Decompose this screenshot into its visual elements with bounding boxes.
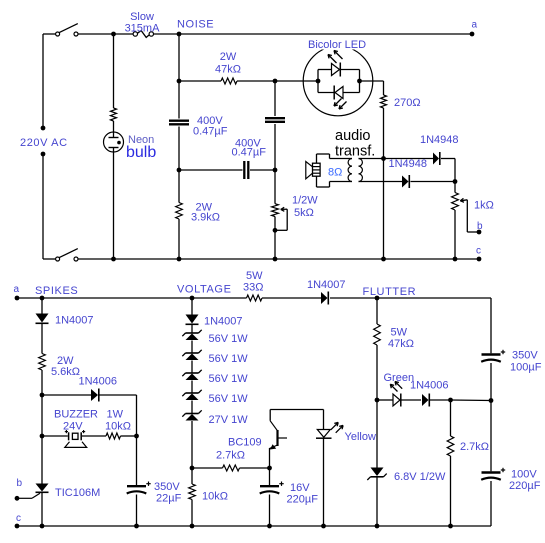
zener 6.8V 1/2W xyxy=(367,468,386,481)
LED yellow emission arrows xyxy=(331,422,343,432)
svg-text:8Ω: 8Ω xyxy=(328,167,342,179)
svg-text:1kΩ: 1kΩ xyxy=(474,200,494,212)
terminal c (bottom section) xyxy=(15,513,21,528)
svg-text:1N4948: 1N4948 xyxy=(420,134,459,146)
capacitor C3 400V 0.47uF (series) xyxy=(179,161,275,179)
wire left rail lower xyxy=(42,154,44,259)
wire voltage column x=192 xyxy=(190,296,195,529)
wire bottom rail xyxy=(17,525,491,527)
svg-text:0.47µF: 0.47µF xyxy=(232,147,267,159)
svg-text:1/2W: 1/2W xyxy=(292,195,318,207)
svg-text:TIC106M: TIC106M xyxy=(55,487,100,499)
svg-text:47kΩ: 47kΩ xyxy=(215,64,241,76)
label C3 xyxy=(232,138,267,159)
diode 1N4006 (buzzer) xyxy=(91,389,99,402)
label 6.8V xyxy=(394,471,446,483)
capacitor 100V 220uF xyxy=(481,468,505,480)
svg-text:47kΩ: 47kΩ xyxy=(388,338,414,350)
diode 1N4948 (lower) xyxy=(402,175,409,188)
wire 270ohm column x=383.5 xyxy=(381,81,386,261)
terminal 220V AC lower xyxy=(41,152,46,157)
thyristor TIC106M xyxy=(17,484,49,499)
switch S2 (bottom, open) xyxy=(56,249,78,261)
potentiometer 5k 1/2W xyxy=(272,204,288,231)
svg-text:a: a xyxy=(14,284,20,295)
label SPIKES xyxy=(35,285,78,297)
svg-text:1N4006: 1N4006 xyxy=(79,376,118,388)
svg-text:10kΩ: 10kΩ xyxy=(105,421,131,433)
label 1N4006 buzzer xyxy=(79,376,118,388)
resistor 3.9k 2W xyxy=(176,203,183,220)
diode 1N4007 (rail) xyxy=(321,292,328,305)
resistor 33ohm 5W xyxy=(247,295,263,301)
wire collector to yellow LED xyxy=(270,410,323,430)
resistor 2.7k (base row) xyxy=(192,465,270,471)
label 56V #2 xyxy=(209,353,249,365)
svg-text:c: c xyxy=(476,246,481,257)
label 1N4948 upper xyxy=(420,134,459,146)
svg-text:VOLTAGE: VOLTAGE xyxy=(177,284,232,296)
wire spikes top rail xyxy=(17,297,491,299)
switch S1 (top, open) xyxy=(56,24,78,36)
label 2.7k base xyxy=(216,450,245,462)
resistor 270ohm xyxy=(381,95,387,108)
zener 56V 1W #2 xyxy=(182,350,201,360)
svg-text:56V 1W: 56V 1W xyxy=(209,353,249,365)
capacitor C2 400V 0.47uF xyxy=(265,118,285,122)
svg-text:1N4948: 1N4948 xyxy=(389,158,428,170)
wire x=275 column xyxy=(273,79,278,262)
bicolor LED diode (bottom, left-pointing) xyxy=(334,86,343,100)
label 47k 2W xyxy=(215,51,241,76)
label 5k pot xyxy=(292,195,318,220)
label Yellow xyxy=(345,431,376,443)
label BUZZER 24V xyxy=(54,409,98,433)
wire buzzer top row xyxy=(42,395,139,438)
wire emitter column xyxy=(267,448,272,528)
transformer secondary winding xyxy=(359,159,363,182)
label 1N4007 voltage xyxy=(204,316,243,328)
bicolor LED diode (top, right-pointing) xyxy=(332,63,341,77)
capacitor 16V 220uF xyxy=(260,482,284,494)
svg-text:33Ω: 33Ω xyxy=(243,282,263,294)
terminal b (top section) xyxy=(477,221,483,234)
terminal a (top) xyxy=(470,20,478,37)
svg-text:1N4007: 1N4007 xyxy=(307,279,346,291)
svg-text:bulb: bulb xyxy=(126,144,156,161)
terminal 220V AC upper xyxy=(41,126,46,131)
svg-text:27V 1W: 27V 1W xyxy=(209,414,249,426)
terminal b (bottom section) xyxy=(15,478,23,501)
zener 56V 1W #3 xyxy=(182,370,201,380)
zener 56V 1W #4 xyxy=(182,390,201,400)
label 33ohm xyxy=(243,270,263,294)
label 100V 220uF xyxy=(509,469,541,493)
svg-text:FLUTTER: FLUTTER xyxy=(363,286,417,298)
wire yellow LED to rail xyxy=(321,438,326,528)
wire into LED xyxy=(275,79,384,84)
zener 27V 1W xyxy=(182,410,201,420)
wire secondary bottom xyxy=(362,179,457,184)
LED green emission arrows xyxy=(390,382,402,392)
capacitor C1 400V 0.47uF xyxy=(169,121,189,125)
wire bottom rail (return line) xyxy=(43,258,479,260)
label 56V #4 xyxy=(209,393,249,405)
svg-text:6.8V 1/2W: 6.8V 1/2W xyxy=(394,471,446,483)
svg-text:1N4006: 1N4006 xyxy=(410,380,449,392)
label 1N4948 lower xyxy=(389,158,428,170)
svg-text:b: b xyxy=(17,478,23,489)
label 1N4006 flutter xyxy=(410,380,449,392)
svg-text:5W: 5W xyxy=(391,327,408,339)
svg-text:220µF: 220µF xyxy=(287,494,319,506)
svg-text:c: c xyxy=(16,513,21,524)
svg-text:56V 1W: 56V 1W xyxy=(209,333,249,345)
capacitor 350V 100uF xyxy=(481,350,505,362)
label 10k voltage xyxy=(202,491,228,503)
svg-text:BUZZER: BUZZER xyxy=(54,409,98,421)
bicolor LED emission arrows (down-left) xyxy=(334,99,347,110)
zener 56V 1W #1 xyxy=(182,330,201,340)
svg-text:220µF: 220µF xyxy=(509,480,541,492)
transistor BC109 xyxy=(270,421,287,450)
label VOLTAGE xyxy=(177,284,232,296)
resistor 47k 5W xyxy=(374,324,381,345)
bicolor LED circle xyxy=(303,46,373,116)
svg-text:270Ω: 270Ω xyxy=(394,97,421,109)
svg-text:NOISE: NOISE xyxy=(177,19,214,31)
svg-text:10kΩ: 10kΩ xyxy=(202,491,228,503)
wire neon branch xyxy=(111,32,116,262)
svg-text:2.7kΩ: 2.7kΩ xyxy=(216,450,245,462)
svg-text:315mA: 315mA xyxy=(125,23,161,35)
label 1N4007 spikes xyxy=(55,315,94,327)
svg-text:16V: 16V xyxy=(290,482,310,494)
wire node to right column xyxy=(451,399,492,402)
fuse F1 slow-blow 315mA xyxy=(133,31,153,38)
label 1N4007 rail xyxy=(307,279,346,291)
LED yellow xyxy=(316,430,332,439)
wire 22uF column xyxy=(134,436,139,528)
resistor 47k 2W (horizontal) xyxy=(179,78,275,84)
label 220V AC xyxy=(20,137,68,149)
label audio transf. xyxy=(335,128,375,160)
svg-text:100V: 100V xyxy=(511,469,537,481)
label BC109 xyxy=(228,437,262,449)
svg-text:BC109: BC109 xyxy=(228,437,262,449)
label 1W 10k xyxy=(105,409,131,433)
bicolor LED emission arrows (up-left) xyxy=(328,51,343,64)
label 350V 22uF xyxy=(154,481,182,505)
resistor 10k 1W (buzzer) xyxy=(106,433,121,439)
potentiometer 1k xyxy=(452,193,479,233)
label 3.9k xyxy=(191,202,220,224)
svg-text:22µF: 22µF xyxy=(156,493,182,505)
resistor 2.7k (right) xyxy=(447,400,454,528)
label Green xyxy=(384,372,415,384)
diode 1N4007 (spikes) xyxy=(36,314,49,324)
label 56V #1 xyxy=(209,333,249,345)
svg-text:1N4007: 1N4007 xyxy=(204,316,243,328)
LED green xyxy=(377,394,421,407)
diode 1N4006 (flutter) xyxy=(422,394,453,407)
svg-text:56V 1W: 56V 1W xyxy=(209,393,249,405)
label 56V #3 xyxy=(209,373,249,385)
svg-text:5kΩ: 5kΩ xyxy=(294,207,314,219)
svg-text:2.7kΩ: 2.7kΩ xyxy=(460,441,489,453)
label fuse Slow 315mA xyxy=(125,11,161,35)
neon bulb xyxy=(104,132,124,152)
diode 1N4007 (voltage) xyxy=(186,315,199,325)
resistor 10k (voltage) xyxy=(189,484,196,500)
resistor 5.6k 2W xyxy=(39,354,46,371)
transformer primary winding xyxy=(348,159,352,182)
label 350V 100uF xyxy=(510,350,542,374)
svg-text:audio: audio xyxy=(335,128,370,144)
svg-text:Slow: Slow xyxy=(130,11,154,23)
svg-text:5W: 5W xyxy=(246,270,263,282)
node NOISE wire x=179 xyxy=(177,32,182,262)
label FLUTTER xyxy=(363,286,417,298)
svg-text:220V AC: 220V AC xyxy=(20,137,68,149)
label 27V xyxy=(209,414,249,426)
svg-text:1W: 1W xyxy=(107,409,124,421)
svg-text:56V 1W: 56V 1W xyxy=(209,373,249,385)
label TIC106M xyxy=(55,487,100,499)
label Bicolor LED xyxy=(306,38,366,51)
svg-text:Yellow: Yellow xyxy=(345,431,376,443)
svg-text:350V: 350V xyxy=(154,481,180,493)
label 8 ohm xyxy=(328,167,342,179)
label Neon bulb xyxy=(126,134,156,161)
label 270ohm xyxy=(394,97,421,109)
svg-text:Bicolor LED: Bicolor LED xyxy=(308,39,366,51)
label 5.6k xyxy=(51,355,80,378)
label 47k 5W xyxy=(388,327,414,351)
wire buzzer row xyxy=(42,435,137,437)
svg-text:a: a xyxy=(472,20,478,31)
svg-text:100µF: 100µF xyxy=(510,362,542,374)
wire flutter column x=377 xyxy=(375,296,380,529)
wire secondary top xyxy=(362,159,455,182)
svg-text:2W: 2W xyxy=(220,51,237,63)
wire left rail upper xyxy=(42,34,44,128)
svg-text:1N4007: 1N4007 xyxy=(55,315,94,327)
label NOISE xyxy=(177,19,214,31)
svg-text:b: b xyxy=(477,221,483,232)
svg-text:SPIKES: SPIKES xyxy=(35,285,78,297)
terminal c (top section) xyxy=(476,246,481,262)
label 2.7k right xyxy=(460,441,489,453)
diode 1N4948 (upper) xyxy=(433,152,440,165)
svg-text:5.6kΩ: 5.6kΩ xyxy=(51,366,80,378)
wire spikes left column xyxy=(40,296,45,529)
terminal a (bottom section) xyxy=(14,284,20,300)
label 1k pot xyxy=(474,200,494,212)
wire right column x=491 xyxy=(489,298,494,526)
svg-text:0.47µF: 0.47µF xyxy=(193,126,228,138)
wire top rail (220V line) xyxy=(43,33,472,35)
svg-text:transf.: transf. xyxy=(335,144,375,160)
speaker xyxy=(306,162,320,179)
wire x=455 column xyxy=(453,182,458,262)
bicolor LED frame xyxy=(318,70,360,93)
svg-text:3.9kΩ: 3.9kΩ xyxy=(191,212,220,224)
resistor (neon series) xyxy=(111,108,117,121)
label 16V 220uF xyxy=(287,482,319,506)
capacitor 350V 22uF xyxy=(127,482,151,494)
label C1 xyxy=(193,115,228,138)
svg-text:350V: 350V xyxy=(512,350,538,362)
transformer primary bracket xyxy=(317,154,349,187)
buzzer 24V xyxy=(65,430,87,447)
